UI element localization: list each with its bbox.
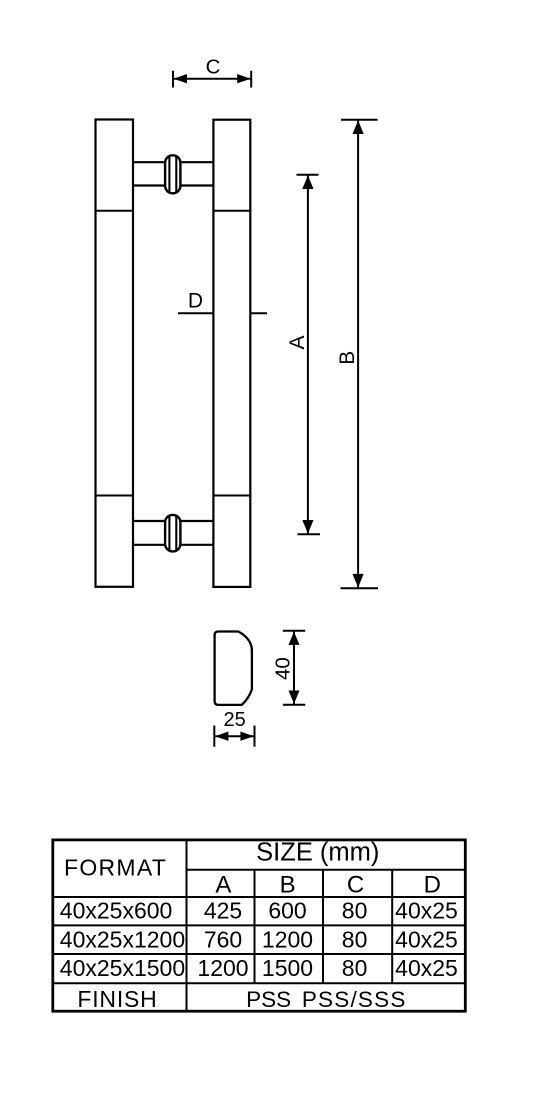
svg-text:1500: 1500 bbox=[262, 955, 313, 981]
table row line under A B C D header bbox=[53, 896, 466, 898]
svg-text:1200: 1200 bbox=[197, 955, 248, 981]
table row FINISH bbox=[77, 986, 406, 1012]
svg-text:760: 760 bbox=[204, 926, 242, 952]
table header SIZE (mm) bbox=[256, 838, 379, 866]
svg-text:D: D bbox=[188, 290, 203, 313]
svg-text:40x25x600: 40x25x600 bbox=[60, 898, 173, 924]
dimension C label bbox=[206, 56, 221, 79]
table column divider A|B bbox=[254, 870, 256, 984]
dimension B label (rotated) bbox=[336, 351, 359, 365]
table header A bbox=[215, 871, 231, 898]
table row line under SIZE header bbox=[187, 869, 466, 871]
table header C bbox=[347, 871, 364, 898]
left bar upper mounting-section divider bbox=[95, 210, 135, 212]
table row line under second data row bbox=[53, 953, 466, 955]
svg-text:C: C bbox=[206, 56, 221, 79]
svg-text:A: A bbox=[215, 871, 231, 898]
table column divider C|D bbox=[391, 870, 393, 984]
table header FORMAT bbox=[64, 855, 167, 881]
table row line under first data row bbox=[53, 924, 466, 926]
table row line under third data row bbox=[53, 982, 466, 984]
svg-text:FORMAT: FORMAT bbox=[64, 855, 167, 881]
bottom connector tube rails bbox=[133, 521, 213, 545]
dimension 40 line with ticks and arrowheads bbox=[283, 631, 305, 705]
svg-text:80: 80 bbox=[342, 898, 368, 924]
dimension D leader lines bbox=[178, 312, 267, 314]
svg-text:1200: 1200 bbox=[262, 926, 313, 952]
dimension A line with ticks and arrowheads bbox=[297, 175, 321, 535]
svg-text:40x25: 40x25 bbox=[395, 926, 458, 952]
svg-text:425: 425 bbox=[204, 898, 242, 924]
svg-text:PSS/SSS: PSS/SSS bbox=[302, 987, 407, 1012]
svg-text:25: 25 bbox=[223, 709, 245, 731]
svg-text:B: B bbox=[336, 351, 359, 365]
top connector barrel bbox=[165, 155, 180, 193]
left bar lower mounting-section divider bbox=[95, 495, 135, 497]
dimension C line with outward arrowheads bbox=[173, 71, 251, 88]
dimension 25 line with outward arrowheads bbox=[214, 726, 254, 747]
dimension 40 label (rotated) bbox=[271, 657, 294, 680]
svg-text:B: B bbox=[280, 871, 296, 898]
svg-text:80: 80 bbox=[342, 926, 368, 952]
dimension A label (rotated) bbox=[286, 335, 309, 349]
dimension 25 label bbox=[223, 709, 245, 731]
right bar lower mounting-section divider bbox=[212, 495, 251, 497]
table header D bbox=[424, 871, 441, 898]
svg-text:40x25: 40x25 bbox=[395, 955, 458, 981]
svg-text:FINISH: FINISH bbox=[77, 986, 157, 1012]
svg-text:600: 600 bbox=[268, 898, 306, 924]
svg-text:80: 80 bbox=[342, 955, 368, 981]
svg-text:40: 40 bbox=[271, 657, 294, 680]
svg-text:40x25: 40x25 bbox=[395, 898, 458, 924]
dimension D label bbox=[188, 290, 203, 313]
svg-text:C: C bbox=[347, 871, 364, 898]
svg-text:40x25x1200: 40x25x1200 bbox=[60, 926, 185, 952]
dimension B line with ticks and arrowheads bbox=[341, 120, 379, 589]
right bar upper mounting-section divider bbox=[212, 210, 251, 212]
table row 1: format 40x25x600 bbox=[60, 898, 458, 924]
right handle bar (side view) bbox=[213, 120, 250, 587]
table header B bbox=[280, 871, 296, 898]
bottom connector barrel bbox=[165, 515, 180, 552]
svg-text:A: A bbox=[286, 335, 309, 349]
svg-text:40x25x1500: 40x25x1500 bbox=[60, 955, 185, 981]
table row 3: format 40x25x1500 bbox=[60, 955, 458, 981]
table column divider after FORMAT column bbox=[186, 840, 188, 1011]
svg-text:SIZE (mm): SIZE (mm) bbox=[256, 838, 379, 866]
top connector tube rails bbox=[133, 162, 213, 185]
left handle bar (side view) bbox=[96, 120, 134, 587]
handle cross-section profile bbox=[215, 632, 252, 705]
specification table outer border bbox=[53, 840, 466, 1011]
table row 2: format 40x25x1200 bbox=[60, 926, 458, 952]
svg-text:D: D bbox=[424, 871, 441, 898]
table column divider B|C bbox=[322, 870, 324, 984]
svg-text:PSS: PSS bbox=[246, 987, 291, 1012]
